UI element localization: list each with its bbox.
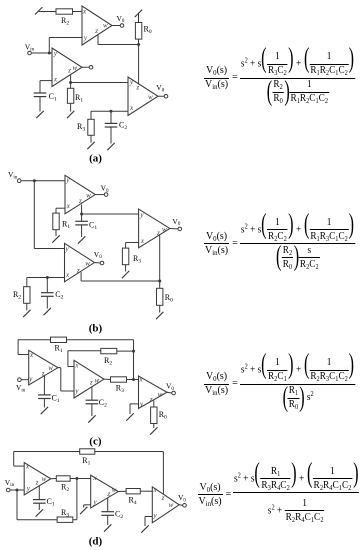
svg-text:w: w [42,475,47,483]
wire U1 w output [82,66,89,68]
wire U1 z down [81,205,83,214]
wire U2 y to ground (d) [84,504,91,506]
wire R0 to node [138,39,140,44]
wire Vin to U1 y (d) [10,489,24,491]
ground below C1 (b) [78,236,85,243]
wire R2 to U2 x [73,11,83,13]
wire node to C2 (b) [46,278,48,293]
resistor R1 of (c) [51,337,67,342]
node U1 z junction [69,81,72,84]
wire U3 z down to node (b) [159,235,161,281]
wire node to C2 [110,111,112,123]
wire C1 to ground (b) [81,225,83,237]
svg-text:R2: R2 [13,290,21,301]
wire U1 w to R2 (d) [51,478,57,480]
resistor R0 [135,23,141,40]
resistor R3 of (c) [111,377,127,382]
wire U3 z to R0 (c) [153,401,155,408]
svg-text:R1: R1 [62,220,70,231]
svg-text:w: w [158,390,163,398]
svg-text:R1: R1 [75,93,83,104]
ground below R1 (b) [52,235,59,242]
wire U2 w output [112,25,120,27]
wire U2 z to C2 (d) [107,498,109,512]
wire U2 z to R0 node (b) [80,272,82,281]
svg-text:z: z [161,494,165,502]
svg-text:(d): (d) [89,536,103,548]
svg-text:z: z [106,490,110,498]
op-amp U3 (right CFOA of d) [152,487,179,523]
svg-text:w: w [48,364,53,372]
wire U2 z to R0 node [97,35,99,45]
wire node to U3 z [138,45,140,85]
ground at U3 y (c) [126,413,133,420]
wire R1 to feedback node column (c) [67,339,134,341]
svg-text:Vin: Vin [16,383,26,393]
svg-text:w: w [148,93,153,101]
resistor R4 of (d) [126,489,140,494]
wire R1 to ground [55,230,57,236]
op-amp U1 (left CFOA of c) [29,350,58,385]
svg-text:z: z [135,84,139,92]
ground at U2 y (d) [80,507,87,514]
svg-text:C2: C2 [119,121,127,132]
wire C2 to ground (b) [46,296,48,308]
terminal U1 w [89,65,93,69]
op-amp U1 (middle CFOA of a) [52,48,82,87]
wire U3 w output (d) [179,504,182,507]
wire node to R0 (b) [159,281,161,288]
wire top-left feedback of (c) [18,339,50,341]
wire C2 to ground (c) [91,404,93,416]
ground below C2 (d) [104,524,111,531]
node R2/R3 junction (d) [75,477,78,480]
svg-text:R3: R3 [61,508,69,519]
resistor R2 of (c) [101,348,117,353]
wire U3 w output [158,95,164,97]
ground below C1 (d) [36,509,43,516]
ground at U3 y (d) [141,525,148,532]
wire C1 to ground (c) [43,399,45,408]
svg-text:C1: C1 [47,497,55,508]
wire U1 w output [95,194,104,196]
op-amp U3 (right CFOA of a) [128,77,158,116]
ground below R3 [87,142,94,149]
wire R0 to ground (b) [159,305,161,312]
wire R2 to U2 x (d) [70,478,91,480]
resistor R2 of (d) [56,476,70,481]
svg-text:V0: V0 [94,250,102,260]
terminal Vo of U2 (b) [100,261,104,265]
wire Vin to U1 y [21,180,65,182]
ground below R1 [67,111,74,118]
resistor R3 of (d) [57,517,73,522]
svg-text:R2: R2 [104,356,112,367]
resistor R1 of (d) [80,449,95,454]
svg-text:C2: C2 [115,510,123,521]
svg-text:w: w [86,191,91,199]
node C2 junction [110,110,113,113]
svg-text:V0: V0 [172,217,180,227]
wire Vin node down to R3 (d) [16,490,18,520]
terminal Vo of U3 [164,94,168,98]
svg-text:(b): (b) [89,323,103,335]
op-amp U3 (right CFOA of c) [139,376,168,409]
resistor R2 [56,9,73,14]
wire R3 to node (c) [127,379,139,381]
node C2 junction (b) [46,276,49,279]
terminal Vo of U3 (b) [178,227,182,231]
ground below C1 [36,111,43,118]
capacitor C2 of (c) [86,399,99,401]
svg-text:w: w [162,225,167,233]
op-amp U2 (bottom CFOA of b) [65,243,95,281]
wire R3 to ground (b) [125,265,127,272]
wire U1 w to U2 y (c) [58,367,61,369]
svg-text:z: z [149,396,153,404]
terminal Vo of U1 (b) [104,193,108,197]
wire Vin node down to U2 y (b) [33,181,35,249]
svg-text:R3: R3 [77,122,85,133]
input terminal Vin of (c) [18,378,22,382]
wire U2 w to R4 (d) [118,490,126,492]
wire U1 z down [70,75,72,83]
ground below R0 (b) [156,312,163,319]
wire R3 to R2 node (d) [73,519,77,521]
svg-text:C1: C1 [89,221,97,232]
wire Vin to node [32,52,52,54]
svg-text:(c): (c) [89,436,102,448]
op-amp U2 (top CFOA of a) [82,6,112,45]
wire z node to U3 y (b) [82,213,139,215]
svg-text:C1: C1 [49,92,57,103]
wire U3 y to ground (d) [145,516,152,518]
svg-text:R0: R0 [159,410,167,421]
node R0 junction (b) [158,280,161,283]
wire R1 to ground [70,103,72,111]
wire Vin node up to U2 y [48,38,50,54]
wire C2 to ground (d) [107,515,109,525]
svg-text:w: w [72,64,77,72]
ground below R3 (b) [122,271,129,278]
wire R2 to ground (b) [26,303,28,310]
wire C1 to ground [39,97,41,112]
svg-text:z: z [67,67,71,75]
resistor R0 of (c) [151,407,157,424]
svg-text:z: z [78,197,82,205]
wire U3 x to R3 [91,110,128,112]
svg-text:w: w [103,22,108,30]
wire R1 to U3 z column (d) [95,451,164,453]
capacitor C2 [105,122,118,124]
svg-text:V0: V0 [101,184,109,194]
node R3 junction (c) [132,378,135,381]
svg-text:z: z [76,266,80,274]
terminal Vo of U2 [120,24,124,28]
resistor R1 of (b) [53,213,59,230]
node Vin junction [48,52,51,55]
op-amp U2 (middle CFOA of c) [74,360,104,398]
wire node to R1 [70,83,72,89]
wire node to C1 (b) [81,214,83,221]
wire U3 w output (c) [167,391,172,394]
svg-text:z: z [89,379,93,387]
svg-text:V0: V0 [178,493,186,503]
svg-text:(a): (a) [89,153,102,165]
svg-text:w: w [169,501,174,509]
svg-text:w: w [85,259,90,267]
wire U1 z to C1 (c) [43,375,45,395]
op-amp U1 (left CFOA of d) [24,463,51,496]
wire ground to R0 [138,13,140,22]
wire z node to U3 y [71,82,128,84]
wire U1 z to C1 (d) [38,486,40,500]
wire U2 x up to R2 (c) [68,366,74,368]
wire U1 x to R1 [56,207,65,209]
svg-text:R3: R3 [116,384,124,395]
svg-text:Vin: Vin [5,478,15,488]
capacitor C2 of (b) [41,292,54,294]
svg-text:V0: V0 [117,14,125,24]
capacitor C1 of (d) [33,499,46,501]
capacitor C1 [34,92,47,94]
node R2 junction (c) [132,350,135,353]
wire U1 x to C1 [40,80,52,82]
wire C2 to ground [110,127,112,144]
node Vin junction (d) [16,489,19,492]
wire R3 to ground [90,135,92,142]
wire U2 z to C2 (c) [91,387,93,400]
svg-text:V0: V0 [166,382,174,392]
op-amp U3 (right CFOA of b) [139,209,170,248]
capacitor C1 of (c) [38,394,51,396]
node Vin junction of (b) [33,179,36,182]
resistor R3 of (b) [122,248,128,265]
svg-text:C2: C2 [99,398,107,409]
wire U3 w output (b) [170,227,178,229]
wire Vin to U1 y (c) [22,379,29,381]
capacitor C1 of (b) [75,220,88,222]
wire C1 to ground (d) [38,503,40,510]
capacitor C2 of (d) [101,511,114,513]
wire U2 w output (b) [95,262,101,264]
resistor R1 [67,88,73,103]
ground below C2 (c) [88,415,95,422]
wire U2 x to R2/C2 (b) [27,277,65,279]
wire U3 y to ground (c) [130,403,139,405]
wire ground to R2 [39,11,56,13]
svg-text:R2: R2 [61,482,69,493]
svg-text:R1: R1 [55,344,63,355]
op-amp U1 (top CFOA of b) [65,175,95,214]
ground below C2 [107,143,114,150]
ground top-left of (a) [35,7,42,14]
terminal Vo of U3 (d) [183,504,187,508]
svg-text:z: z [94,27,98,35]
op-amp U2 (middle CFOA of d) [91,475,119,508]
svg-text:R3: R3 [133,254,141,265]
wire U2 w to R3 (c) [104,378,111,380]
wire U3 x to R3 (b) [126,242,139,244]
ground below C1 (c) [41,407,48,414]
ground above R0 [135,10,142,17]
svg-text:w: w [94,376,99,384]
ground below C2 (b) [44,308,51,315]
svg-text:w: w [112,486,117,494]
svg-text:z: z [35,479,39,487]
svg-text:R2: R2 [61,16,69,27]
wire R2 to node (c) [117,350,134,352]
svg-text:R0: R0 [144,25,152,36]
svg-text:R0: R0 [165,293,173,304]
svg-text:R1: R1 [82,456,90,467]
wire top feedback of (d) [14,451,80,453]
resistor R2 of (b) [24,287,30,304]
resistor R0 of (b) [157,288,163,305]
node R0/z junction [137,43,140,46]
svg-text:V0: V0 [156,83,164,93]
ground below R2 (b) [23,310,30,317]
wire R4 to U3 x (d) [140,490,152,492]
resistor R3 [88,119,94,135]
svg-text:Vin: Vin [8,170,18,180]
svg-text:R4: R4 [129,496,137,507]
node U1 z junction (b) [80,213,83,216]
terminal Vo of U3 (c) [172,391,176,395]
ground below R0 (c) [150,427,157,434]
svg-text:C2: C2 [55,290,63,301]
svg-text:C1: C1 [52,393,60,404]
wire R0 to ground (c) [153,424,155,429]
